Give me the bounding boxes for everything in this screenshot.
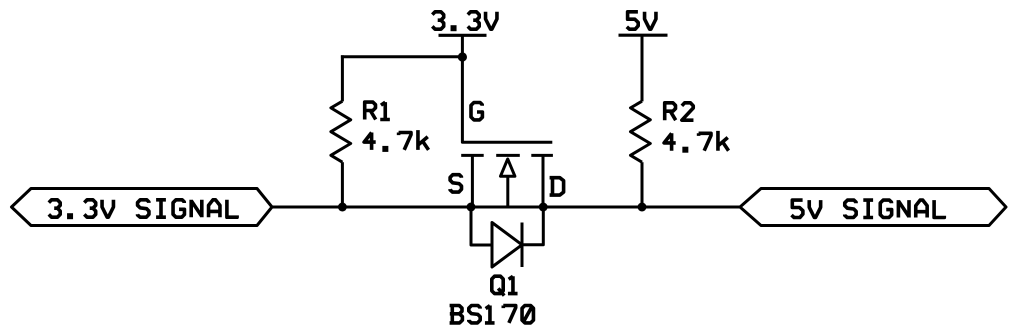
- wire: source node to drain node: [471, 206, 543, 209]
- junction: R2 / signal rail: [638, 203, 647, 212]
- value 4.7k (R1): [364, 130, 428, 150]
- body diode of Q1: cathode wiring to drain node: [522, 207, 543, 245]
- wire: R1 top lead: [341, 55, 344, 101]
- wire: 3.3V bar to gate node: [461, 35, 464, 57]
- text 3.3V SIGNAL: [49, 200, 237, 217]
- pin label G: [471, 103, 482, 120]
- text 5V SIGNAL: [792, 200, 945, 217]
- wire: drain lead of Q1: [542, 155, 545, 207]
- wire: R2 node to 5V SIGNAL flag: [642, 206, 740, 209]
- wire: gate connection (down and right to gate bar): [462, 57, 552, 142]
- junction: source node: [467, 203, 476, 212]
- resistor R1 (zigzag body): [331, 101, 351, 162]
- junction: R1 / signal rail: [338, 203, 347, 212]
- power symbol 5V (bar): [619, 34, 668, 37]
- wire: gate node to R1 top: [341, 55, 463, 58]
- net flag 3.3V SIGNAL (hexagon outline): [12, 189, 273, 226]
- transistor Q1 channel: source segment: [461, 154, 484, 157]
- net flag 5V SIGNAL (hexagon outline): [740, 189, 1006, 226]
- wire: drain node to R2 node: [543, 206, 642, 209]
- transistor Q1 channel: drain segment: [531, 154, 553, 157]
- wire: R2 bottom lead: [641, 162, 644, 207]
- label Q1: [492, 276, 518, 295]
- body diode of Q1: anode wiring from source node: [471, 207, 492, 245]
- junction: drain node: [539, 203, 548, 212]
- value 4.7k (R2): [664, 131, 728, 151]
- wire: R1 node to source node: [342, 206, 471, 209]
- wire: source lead of Q1: [471, 155, 474, 207]
- wire: body lead of Q1: [506, 176, 509, 207]
- body diode of Q1: triangle: [492, 223, 522, 268]
- label R2: [665, 103, 694, 120]
- transistor Q1 channel: body segment: [496, 154, 520, 157]
- wire: 3.3V SIGNAL flag to R1 node: [272, 206, 342, 209]
- body diode of Q1: cathode bar: [521, 223, 524, 268]
- power symbol 3.3V (bar): [439, 34, 487, 37]
- wire: 5V bar to R2 top: [641, 35, 644, 101]
- net label 3.3V (power): [432, 12, 497, 29]
- value BS170 (Q1): [450, 306, 534, 323]
- resistor R2 (zigzag body): [631, 101, 651, 162]
- pin label S: [450, 175, 461, 192]
- junction: gate node: [458, 52, 467, 61]
- net label 5V (power): [627, 12, 656, 29]
- label R1: [365, 102, 390, 119]
- transistor Q1 body arrow: [501, 159, 515, 176]
- pin label D: [550, 178, 564, 195]
- wire: R1 bottom lead: [341, 162, 344, 207]
